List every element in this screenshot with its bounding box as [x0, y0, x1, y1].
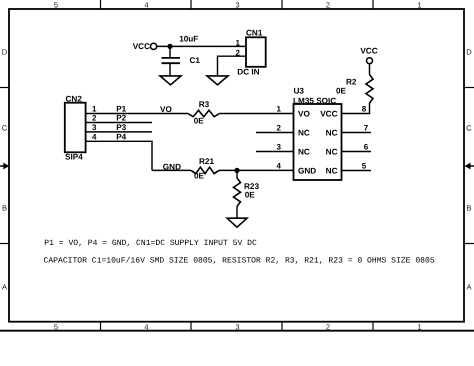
svg-text:R3: R3 [199, 100, 210, 109]
svg-text:P4: P4 [116, 132, 126, 141]
wire R3 to U3 pin 1 [220, 113, 294, 115]
svg-text:1: 1 [277, 104, 282, 113]
svg-text:4: 4 [277, 161, 282, 170]
CN2 pin 2 stub wire [86, 122, 152, 124]
svg-text:4: 4 [144, 322, 148, 331]
svg-text:DC IN: DC IN [237, 67, 259, 76]
svg-text:4: 4 [144, 1, 148, 10]
node VCC (left supply) [133, 42, 157, 51]
svg-text:P1: P1 [116, 104, 126, 113]
svg-text:CAPACITOR C1=10uF/16V SMD SIZE: CAPACITOR C1=10uF/16V SMD SIZE 0805, RES… [44, 257, 435, 266]
svg-text:P3: P3 [116, 123, 126, 132]
svg-text:NC: NC [326, 167, 338, 176]
svg-text:3: 3 [277, 142, 282, 151]
svg-text:2: 2 [277, 123, 282, 132]
svg-text:3: 3 [92, 123, 97, 132]
svg-text:NC: NC [326, 148, 338, 157]
svg-text:C: C [2, 124, 8, 133]
svg-text:5: 5 [54, 322, 58, 331]
svg-text:0E: 0E [245, 190, 256, 199]
ground under CN1 pin 2 [207, 76, 228, 85]
svg-text:P1 = VO, P4 = GND, CN1=DC SUPP: P1 = VO, P4 = GND, CN1=DC SUPPLY INPUT 5… [44, 239, 257, 248]
svg-text:R2: R2 [346, 78, 357, 87]
svg-text:R21: R21 [199, 157, 214, 166]
svg-text:SIP4: SIP4 [65, 153, 83, 162]
svg-text:1: 1 [236, 39, 241, 48]
node VCC (right supply) [360, 46, 377, 63]
svg-text:1: 1 [417, 1, 421, 10]
ground under R23 [227, 218, 247, 227]
svg-text:3: 3 [235, 322, 239, 331]
resistor R23 [234, 178, 260, 206]
svg-text:D: D [466, 48, 472, 57]
svg-text:CN1: CN1 [246, 29, 263, 38]
svg-text:6: 6 [364, 142, 369, 151]
svg-text:VCC: VCC [133, 42, 150, 51]
wire CN1 pin 2 to ground [218, 56, 247, 76]
wire junction to R23 [236, 170, 238, 178]
svg-text:0E: 0E [194, 117, 205, 126]
wire CN2 pin 1 to R3 (VO net) [86, 113, 188, 115]
CN2 pin 3 stub wire [86, 131, 152, 133]
svg-text:NC: NC [326, 129, 338, 138]
op-amp U3 LM35 SOIC [293, 86, 342, 180]
wire VCC to R2 [369, 64, 371, 75]
svg-text:B: B [466, 204, 471, 213]
svg-text:5: 5 [54, 1, 58, 10]
svg-text:C1: C1 [190, 56, 201, 65]
junction dot GND net [234, 168, 239, 173]
svg-text:A: A [2, 283, 7, 292]
svg-text:A: A [466, 283, 471, 292]
wire R23 to ground [236, 206, 238, 218]
svg-text:0E: 0E [336, 87, 347, 96]
svg-text:8: 8 [362, 104, 367, 113]
U3 pin 7 stub wire [342, 132, 372, 134]
svg-text:U3: U3 [294, 86, 305, 95]
svg-text:NC: NC [298, 148, 310, 157]
svg-text:VO: VO [160, 105, 172, 114]
wire CN2 pin 4 to R21 [152, 169, 191, 171]
svg-text:5: 5 [362, 161, 367, 170]
svg-text:C: C [466, 124, 472, 133]
wire VCC to CN1 pin 1 [157, 45, 246, 47]
connector CN2 SIP4 [65, 94, 86, 161]
svg-text:1: 1 [417, 322, 421, 331]
ground under C1 [160, 63, 181, 85]
svg-text:D: D [2, 48, 8, 57]
junction dot at C1 tap [167, 44, 172, 49]
svg-text:B: B [2, 204, 7, 213]
svg-text:4: 4 [92, 132, 97, 141]
svg-text:VCC: VCC [360, 46, 377, 55]
svg-text:VCC: VCC [320, 110, 337, 119]
resistor R21 [191, 157, 219, 181]
svg-text:1: 1 [92, 104, 97, 113]
wire R2 to U3 pin 8 [342, 103, 370, 114]
CN2 pin 4 wire to GND net [86, 141, 152, 170]
svg-text:3: 3 [235, 1, 239, 10]
resistor R2 [336, 75, 373, 104]
svg-text:2: 2 [326, 322, 330, 331]
U3 pin 5 stub wire [342, 170, 372, 172]
svg-text:7: 7 [364, 123, 369, 132]
wire R21 to U3 pin 4 [219, 169, 294, 171]
svg-text:10uF: 10uF [179, 34, 198, 43]
resistor R3 [188, 100, 220, 126]
svg-text:NC: NC [298, 129, 310, 138]
svg-text:GND: GND [298, 167, 316, 176]
svg-text:P2: P2 [116, 114, 126, 123]
svg-text:VO: VO [298, 110, 310, 119]
svg-text:0E: 0E [194, 172, 205, 181]
U3 pin 6 stub wire [342, 151, 372, 153]
U3 pin 3 stub wire [256, 151, 294, 153]
connector CN1 [237, 29, 265, 77]
svg-text:2: 2 [326, 1, 330, 10]
svg-text:2: 2 [92, 114, 97, 123]
U3 pin 2 stub wire [256, 132, 294, 134]
capacitor C1 [162, 46, 201, 65]
